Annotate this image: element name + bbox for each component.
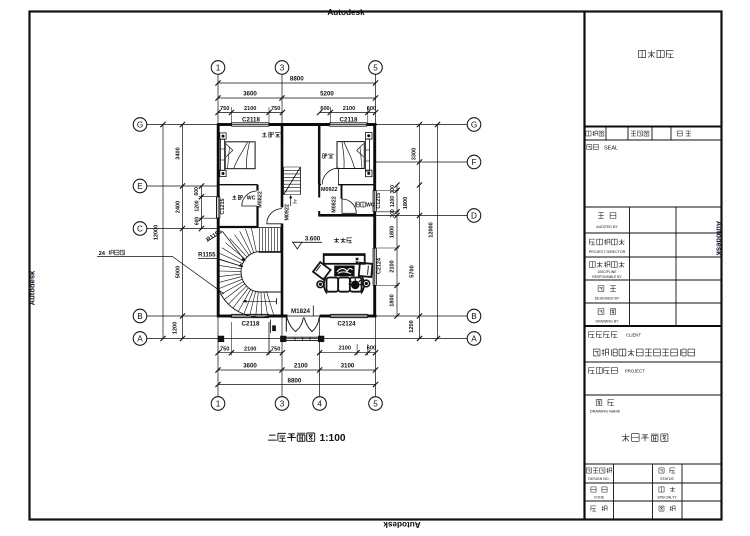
svg-text:CODE: CODE	[594, 496, 605, 500]
grid bubble A right	[467, 332, 481, 346]
label 工程负责人 PROJECT DIRECTOR	[589, 239, 595, 245]
bottom column divider x=652	[652, 464, 654, 520]
seal box bottom line	[585, 206, 722, 208]
grid bubble 1 top	[211, 61, 225, 75]
label 工程名称 PROJECT	[589, 368, 595, 374]
porch column 2	[280, 336, 286, 342]
svg-text:1200: 1200	[409, 320, 415, 332]
svg-text:C2124: C2124	[377, 258, 383, 274]
svg-text:2100: 2100	[244, 106, 256, 112]
exterior wall bottom (B line)	[217, 315, 231, 318]
armchair left living room	[313, 262, 331, 279]
window C1215 left in wall	[216, 197, 218, 219]
stair up arrow and label	[290, 197, 292, 207]
svg-text:3600: 3600	[243, 363, 257, 370]
interior wall grid-3 vertical	[281, 125, 284, 208]
svg-text:DISCIPLINE: DISCIPLINE	[598, 270, 618, 274]
grid bubble 5 top	[369, 61, 383, 75]
cell divider x=628	[627, 127, 629, 141]
svg-text:3300: 3300	[412, 148, 418, 160]
svg-text:Autodesk: Autodesk	[383, 520, 421, 529]
svg-text:RESPONSIBLE BY: RESPONSIBLE BY	[592, 275, 622, 279]
svg-text:1: 1	[216, 399, 221, 408]
grid stub 5 top	[375, 74, 377, 124]
svg-text:C1215: C1215	[376, 193, 382, 209]
grid line D right	[376, 215, 468, 217]
label 张数 CODE	[591, 487, 596, 492]
interior wall grid-4 upper	[318, 125, 321, 185]
bed second bedroom	[337, 142, 364, 169]
dim row 8800 bottom	[218, 384, 376, 386]
svg-text:750: 750	[271, 346, 280, 352]
svg-text:4: 4	[317, 399, 322, 408]
interior wall bedroom divider right (y=185)	[319, 184, 321, 186]
svg-text:Autodesk: Autodesk	[715, 221, 724, 256]
grid line F right	[376, 161, 468, 163]
stair flight lower strip (treads)	[259, 227, 281, 229]
svg-text:3: 3	[280, 63, 285, 72]
bottom row divider 2	[585, 500, 722, 502]
cell divider x=606	[605, 127, 607, 141]
dim line 8800 top	[218, 82, 376, 84]
door M1824 balcony double swing	[287, 318, 319, 332]
nightstand bedroom2 2	[365, 170, 372, 177]
bottom column divider x=614	[613, 464, 615, 520]
label 日期	[591, 506, 596, 511]
nightstand bedroom2 1	[365, 133, 372, 140]
divider line above project name	[585, 361, 722, 363]
svg-text:3: 3	[280, 399, 285, 408]
row divider y=233	[585, 232, 722, 234]
grid bubble 1 bottom	[211, 397, 225, 411]
svg-text:Autodesk: Autodesk	[327, 8, 365, 17]
thick divider under 制图 row	[585, 325, 722, 327]
grid bubble F right	[467, 155, 481, 169]
dim line segments left	[182, 125, 184, 339]
label 阶段 STATUS	[659, 468, 664, 473]
svg-text:2400: 2400	[176, 201, 182, 213]
signature column divider 2	[675, 207, 677, 326]
dim line window dims top	[218, 112, 282, 114]
svg-text:DESIGNED BY: DESIGNED BY	[595, 297, 620, 301]
interior wall x=257.5 (WC side)	[256, 185, 258, 191]
grid bubble D right	[467, 209, 481, 223]
nightstand master 1	[220, 133, 226, 139]
svg-text:Autodesk: Autodesk	[28, 270, 37, 305]
grid bubble C left	[133, 222, 147, 236]
svg-text:3600: 3600	[243, 91, 257, 98]
svg-text:M0822: M0822	[331, 196, 337, 212]
interior wall public-WC left x=341.5	[341, 185, 343, 199]
svg-text:1: 1	[216, 63, 221, 72]
door M0822 public WC arc	[342, 199, 356, 213]
interior wall grid-4 segments	[318, 185, 320, 198]
dim row 3600/2100/3100 bottom	[218, 369, 376, 371]
svg-text:8800: 8800	[288, 377, 302, 384]
grid line A (porch edge)	[147, 338, 467, 340]
svg-text:A: A	[471, 334, 477, 343]
room label 会客厅	[334, 238, 339, 243]
small mark near C2118 bottom	[270, 320, 272, 334]
svg-text:STATUS: STATUS	[660, 477, 674, 481]
svg-text:C2118: C2118	[242, 116, 260, 123]
cell divider x=671	[670, 127, 672, 141]
svg-text:1:100: 1:100	[320, 433, 346, 444]
grid bubble B left	[133, 309, 147, 323]
porch railing double line	[286, 336, 318, 338]
svg-text:1200: 1200	[195, 200, 201, 211]
svg-text:M0922: M0922	[321, 187, 337, 193]
svg-text:PROJECT: PROJECT	[625, 369, 645, 374]
title block left edge	[583, 12, 585, 520]
svg-text:2100: 2100	[390, 260, 396, 272]
svg-text:300: 300	[390, 185, 396, 194]
tv stand living room	[324, 254, 365, 263]
row divider y=280	[585, 279, 722, 281]
winder stair outer arc	[219, 290, 274, 317]
svg-text:AUDITED BY: AUDITED BY	[596, 225, 618, 229]
dim line fine right	[396, 185, 398, 316]
svg-text:300: 300	[390, 209, 396, 218]
svg-text:12000: 12000	[429, 222, 435, 238]
drawing name 基础平面图	[622, 434, 630, 442]
svg-text:WC: WC	[247, 196, 256, 202]
room label 主卧室	[262, 132, 267, 137]
svg-text:C2118: C2118	[340, 116, 358, 123]
grid stub 3 top	[281, 74, 283, 124]
svg-text:3400: 3400	[176, 147, 182, 159]
winder stair fan treads	[266, 291, 273, 315]
svg-text:2100: 2100	[339, 345, 351, 351]
porch column 1	[218, 336, 224, 342]
label 施工单位 CLIENT	[589, 332, 595, 338]
label 正式图	[586, 131, 591, 136]
grid bubble G right	[467, 118, 481, 132]
svg-text:600: 600	[195, 217, 201, 226]
grid line G left	[147, 124, 218, 126]
grid line B	[147, 315, 467, 317]
interior wall WC bottom (y=227)	[217, 226, 259, 228]
svg-text:C2118: C2118	[242, 320, 260, 327]
svg-text:1800: 1800	[390, 226, 396, 238]
window C2124 bottom in wall	[330, 313, 368, 315]
grid stub 1 bottom	[217, 316, 219, 397]
svg-text:1200: 1200	[173, 322, 179, 334]
grid stub 3 bottom	[281, 316, 283, 397]
company name 湖北藤仓建材科技有限公司	[593, 349, 600, 356]
armchair right living room	[359, 263, 373, 277]
label 条件图	[631, 131, 636, 136]
svg-text:C2124: C2124	[337, 320, 356, 327]
svg-text:F: F	[471, 158, 476, 167]
room label 主卧WC	[232, 195, 237, 199]
bottom row divider 1	[585, 482, 722, 484]
svg-text:R1155: R1155	[198, 252, 216, 258]
svg-text:M1824: M1824	[291, 308, 310, 315]
svg-text:2100: 2100	[294, 363, 308, 370]
svg-text:5000: 5000	[176, 266, 182, 278]
sofa three-seat living room	[327, 278, 339, 292]
label 专业负责人 DISCIPLINE RESPONSIBLE BY	[589, 262, 595, 268]
svg-text:DRAWING BY: DRAWING BY	[595, 320, 619, 324]
dim line window jambs left	[201, 186, 203, 229]
svg-text:PROJECT DIRECTOR: PROJECT DIRECTOR	[589, 250, 626, 254]
svg-text:WC: WC	[366, 203, 375, 209]
svg-text:B: B	[137, 312, 143, 321]
svg-text:600: 600	[367, 106, 376, 112]
svg-text:5700: 5700	[410, 265, 416, 277]
svg-text:G: G	[471, 120, 477, 129]
window C2118 top-right in wall	[329, 122, 367, 124]
interior wall D line (y=215.5)	[319, 214, 375, 217]
title block thick divider under logo	[585, 126, 722, 128]
svg-text:C: C	[137, 224, 143, 233]
door M0922 stair (wall 3) arc	[267, 209, 282, 224]
grid bubble A left	[133, 332, 147, 346]
grid bubble 5 bottom	[369, 397, 383, 411]
svg-text:5: 5	[373, 63, 378, 72]
svg-text:E: E	[137, 182, 143, 191]
divider line above drawing name	[585, 394, 722, 396]
svg-text:DESIGN NO.: DESIGN NO.	[588, 477, 609, 481]
exterior wall right	[373, 124, 376, 191]
svg-text:600: 600	[320, 106, 329, 112]
plan title 二层平面图 1:100	[268, 435, 277, 440]
dim line 12000 left	[162, 125, 164, 339]
divider above bottom rows	[585, 463, 722, 465]
svg-text:5200: 5200	[320, 91, 334, 98]
svg-text:1200: 1200	[390, 196, 396, 207]
grid bubble E left	[133, 179, 147, 193]
window C1215 right in wall	[372, 190, 374, 211]
room label 卧室	[323, 154, 327, 159]
svg-text:M0922: M0922	[285, 204, 291, 220]
side table round right	[362, 279, 370, 287]
dim line segments right	[419, 125, 421, 339]
svg-text:3100: 3100	[341, 363, 355, 370]
exterior wall top (G line)	[217, 123, 231, 126]
dim row window dims bottom	[218, 352, 282, 354]
grid bubble 4 bottom	[313, 397, 327, 411]
svg-text:2100: 2100	[244, 346, 256, 352]
svg-text:1800: 1800	[403, 197, 409, 209]
porch column 3	[318, 336, 324, 342]
signature column divider 1	[629, 207, 631, 326]
bottom dim extension stubs	[230, 322, 232, 356]
grid stub 1 top	[217, 74, 219, 124]
svg-text:1800: 1800	[390, 294, 396, 306]
label 版 次	[677, 131, 682, 136]
svg-text:12000: 12000	[154, 225, 160, 241]
svg-text:600: 600	[194, 187, 200, 196]
svg-text:DRAWING NAME: DRAWING NAME	[590, 410, 621, 414]
row divider y=303	[585, 302, 722, 304]
label 设计 DESIGNED BY	[598, 286, 604, 292]
svg-text:5: 5	[373, 399, 378, 408]
svg-text:24: 24	[99, 251, 106, 257]
svg-text:600: 600	[367, 345, 376, 351]
grid bubble 3 top	[275, 61, 289, 75]
svg-text:750: 750	[220, 106, 229, 112]
label 设计编号 DESIGN NO.	[586, 468, 591, 473]
svg-text:D: D	[471, 211, 477, 220]
level marker 3.600	[292, 241, 322, 243]
door M0822 master WC arc	[242, 191, 257, 206]
top dim extension stubs	[230, 107, 232, 125]
title block villa name box text 轻钢别墅	[639, 50, 646, 57]
grid line C left	[147, 228, 218, 230]
exterior wall left	[217, 124, 220, 197]
svg-text:750: 750	[271, 106, 280, 112]
svg-text:750: 750	[220, 346, 229, 352]
grid line G right	[376, 124, 468, 126]
label 图名 DRAWING NAME	[596, 400, 602, 406]
room label 公卫WC	[355, 202, 359, 207]
winder down arrow	[244, 300, 277, 302]
svg-text:G: G	[137, 120, 143, 129]
window C2118 bottom in wall	[231, 313, 269, 315]
svg-text:SEAL: SEAL	[604, 145, 618, 151]
svg-text:B: B	[471, 312, 477, 321]
side table round left	[316, 280, 324, 288]
grid line E left	[147, 185, 218, 187]
bottom column divider x=682	[681, 464, 683, 520]
row divider y=257	[585, 256, 722, 258]
interior wall master-WC top (y=185)	[218, 184, 258, 186]
grid stub 4 bottom	[319, 316, 321, 397]
row line below 正式图 row	[585, 139, 722, 141]
label 图号	[659, 506, 664, 511]
window C2124 right in wall	[372, 248, 374, 286]
bed master bedroom	[225, 142, 255, 169]
nightstand master 2	[220, 170, 226, 176]
label 审核 AUDITED BY	[598, 213, 604, 219]
winder stair inner capsule	[241, 252, 281, 292]
svg-text:3.600: 3.600	[305, 235, 321, 242]
svg-text:A: A	[137, 334, 143, 343]
dim line 3600/5200 top	[218, 97, 376, 99]
dim line 12000 right	[437, 125, 439, 339]
svg-text:CLIENT: CLIENT	[626, 333, 641, 338]
label 盖章 SEAL	[587, 145, 592, 150]
svg-text:SPECIALTY: SPECIALTY	[657, 496, 677, 500]
label 制图 DRAWING BY	[598, 309, 604, 315]
cell divider x=652	[651, 127, 653, 141]
svg-text:2100: 2100	[343, 106, 355, 112]
svg-text:8800: 8800	[290, 76, 304, 83]
grid bubble G left	[133, 118, 147, 132]
door M0922 bedroom arc	[322, 168, 338, 184]
grid bubble B right	[467, 309, 481, 323]
grid bubble 3 bottom	[275, 397, 289, 411]
stair flight corridor (treads)	[283, 167, 285, 195]
label 专业 SPECIALTY	[659, 487, 664, 492]
svg-text:M0822: M0822	[258, 191, 264, 207]
svg-text:C1215: C1215	[220, 199, 226, 215]
grid stub 5 bottom	[375, 316, 377, 397]
window C2118 top-left in wall	[231, 122, 269, 124]
coffee table living room	[335, 266, 354, 276]
plant living room	[351, 281, 360, 290]
